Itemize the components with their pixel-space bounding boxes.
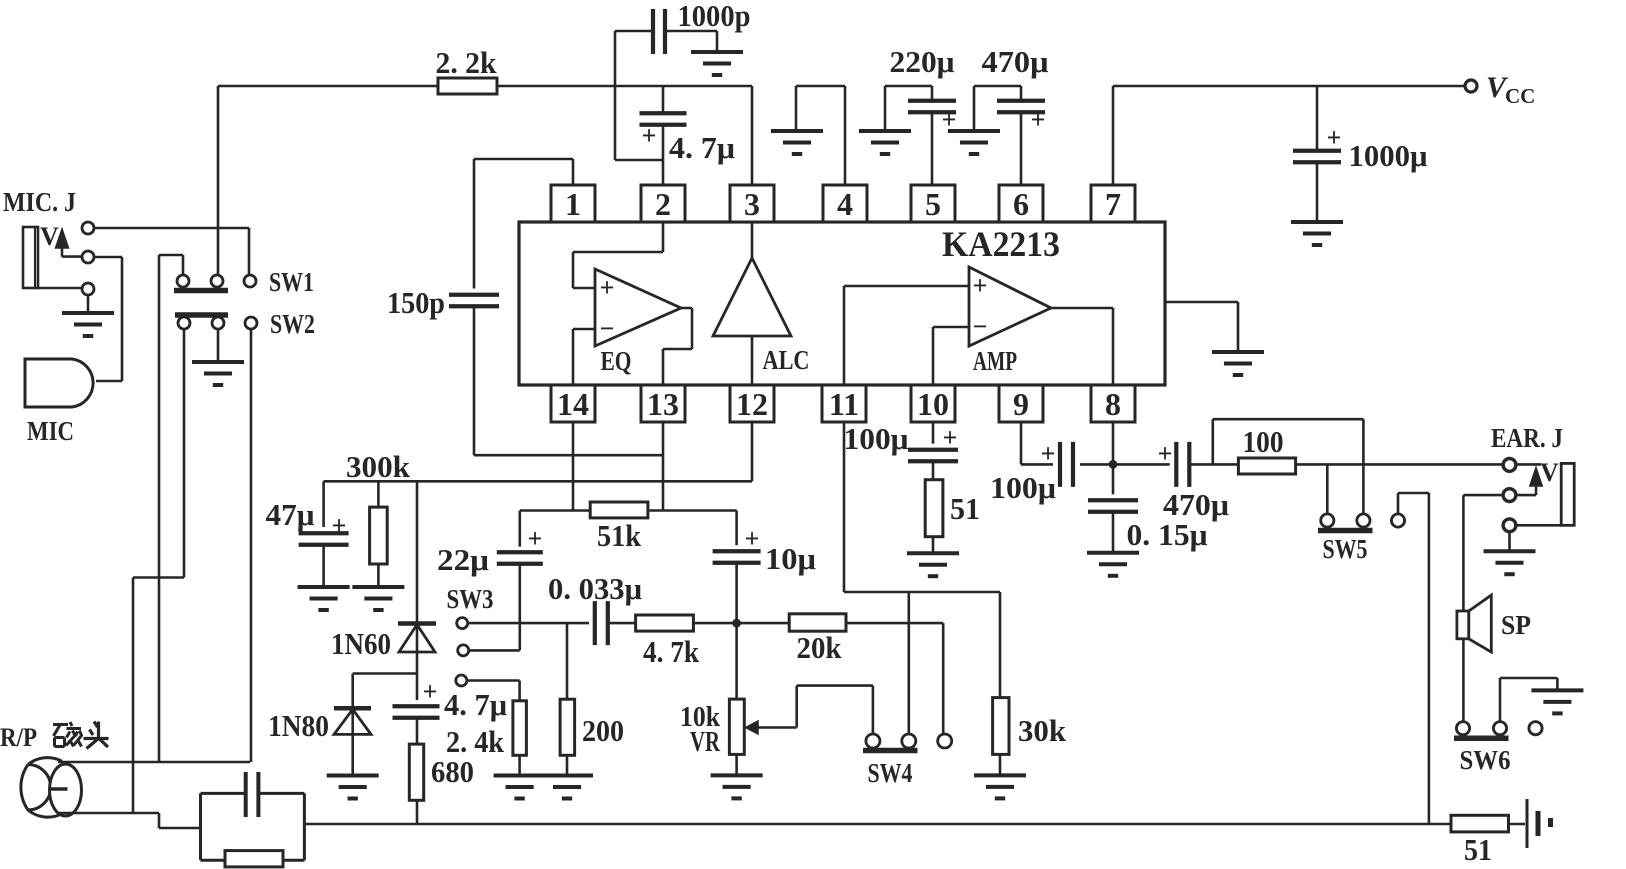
svg-text:SW4: SW4	[868, 758, 913, 788]
svg-text:+: +	[528, 524, 543, 553]
svg-text:R/P: R/P	[0, 723, 37, 752]
svg-text:5: 5	[925, 186, 941, 222]
svg-text:11: 11	[829, 386, 859, 422]
svg-text:+: +	[943, 423, 958, 452]
svg-text:680: 680	[431, 754, 474, 789]
svg-text:1: 1	[565, 186, 581, 222]
svg-text:14: 14	[557, 386, 589, 422]
svg-text:MIC: MIC	[27, 416, 74, 446]
svg-text:CC: CC	[1505, 84, 1535, 108]
svg-text:−: −	[600, 314, 615, 343]
svg-text:51: 51	[950, 491, 980, 526]
svg-text:470μ: 470μ	[982, 44, 1049, 79]
svg-text:AMP: AMP	[973, 346, 1017, 376]
svg-text:4. 7k: 4. 7k	[643, 634, 700, 669]
svg-text:SW6: SW6	[1460, 745, 1511, 775]
svg-text:47μ: 47μ	[266, 497, 315, 532]
svg-text:200: 200	[582, 713, 624, 748]
svg-text:2: 2	[655, 186, 671, 222]
svg-text:+: +	[423, 677, 438, 706]
svg-text:V: V	[1540, 458, 1559, 487]
svg-text:2. 2k: 2. 2k	[436, 45, 498, 80]
svg-text:+: +	[1031, 105, 1046, 134]
svg-text:1000p: 1000p	[678, 0, 751, 33]
svg-text:SW5: SW5	[1323, 534, 1368, 564]
svg-text:100: 100	[1243, 424, 1284, 459]
svg-text:1000μ: 1000μ	[1349, 138, 1428, 173]
svg-text:100μ: 100μ	[844, 421, 909, 456]
svg-text:30k: 30k	[1018, 713, 1067, 748]
svg-text:+: +	[745, 524, 760, 553]
svg-text:10: 10	[917, 386, 949, 422]
svg-text:VR: VR	[690, 727, 721, 758]
svg-text:4: 4	[837, 186, 853, 222]
svg-text:1N80: 1N80	[268, 708, 329, 743]
svg-text:4. 7μ: 4. 7μ	[444, 687, 507, 722]
svg-text:10μ: 10μ	[765, 541, 816, 576]
svg-text:−: −	[973, 312, 988, 341]
svg-text:3: 3	[744, 186, 760, 222]
svg-text:MIC. J: MIC. J	[3, 187, 76, 217]
svg-text:EAR. J: EAR. J	[1491, 423, 1563, 453]
svg-text:0. 033μ: 0. 033μ	[548, 571, 642, 606]
svg-text:SP: SP	[1501, 610, 1531, 640]
svg-text:12: 12	[736, 386, 768, 422]
svg-text:1N60: 1N60	[331, 626, 391, 661]
svg-text:150p: 150p	[387, 285, 445, 320]
svg-text:100μ: 100μ	[990, 470, 1056, 505]
svg-text:0. 15μ: 0. 15μ	[1127, 517, 1208, 552]
svg-text:9: 9	[1013, 386, 1029, 422]
svg-text:+: +	[1327, 123, 1342, 152]
svg-text:+: +	[1041, 439, 1056, 468]
svg-text:SW1: SW1	[269, 267, 314, 297]
svg-text:20k: 20k	[797, 630, 843, 665]
svg-text:51: 51	[1464, 832, 1492, 867]
svg-text:+: +	[973, 271, 988, 300]
svg-text:+: +	[642, 121, 657, 150]
svg-text:470μ: 470μ	[1163, 487, 1229, 522]
svg-text:4. 7μ: 4. 7μ	[669, 130, 735, 165]
svg-text:6: 6	[1013, 186, 1029, 222]
svg-text:8: 8	[1105, 386, 1121, 422]
svg-text:22μ: 22μ	[437, 542, 489, 577]
svg-text:300k: 300k	[346, 449, 411, 484]
svg-text:+: +	[600, 273, 615, 302]
svg-text:SW3: SW3	[447, 584, 494, 614]
svg-text:2. 4k: 2. 4k	[446, 724, 505, 759]
svg-text:+: +	[1158, 439, 1173, 468]
svg-text:51k: 51k	[597, 518, 642, 553]
svg-text:220μ: 220μ	[890, 44, 955, 79]
svg-text:7: 7	[1105, 186, 1121, 222]
svg-text:ALC: ALC	[763, 345, 810, 375]
svg-text:KA2213: KA2213	[942, 224, 1060, 264]
svg-text:EQ: EQ	[601, 346, 632, 376]
svg-text:SW2: SW2	[270, 309, 315, 339]
svg-text:13: 13	[647, 386, 679, 422]
svg-text:+: +	[332, 511, 347, 540]
